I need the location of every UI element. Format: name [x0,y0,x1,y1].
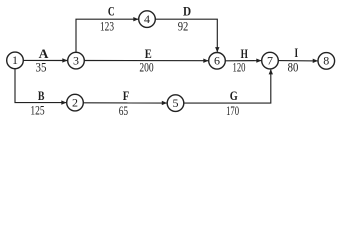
svg-text:8: 8 [323,54,329,68]
wire A: node1 to node3 [23,59,67,61]
svg-text:170: 170 [226,104,239,118]
wire C: node3 up then right to node4 [76,19,138,52]
svg-text:200: 200 [139,61,153,75]
node 3 [68,52,85,69]
svg-text:D: D [183,5,191,19]
svg-text:3: 3 [73,53,79,67]
wire I: node7 to node8 [278,60,317,62]
node 2 [67,94,84,111]
wire E: node3 to node6 [84,60,208,62]
svg-text:65: 65 [119,104,128,118]
svg-text:4: 4 [144,12,150,26]
wire D: node4 right then down to node6 [155,19,217,52]
wire F: node2 to node5 [83,102,166,104]
node 8 [318,53,335,70]
node 1 [7,52,24,69]
node 4 [139,11,156,28]
wire H: node6 to node7 [225,60,261,62]
svg-text:B: B [38,89,45,103]
svg-text:92: 92 [178,20,189,34]
wire G: node5 right then up to node7 [184,70,271,103]
svg-text:123: 123 [100,19,114,33]
svg-text:7: 7 [267,53,273,67]
node 7 [262,52,279,69]
svg-text:6: 6 [214,54,220,68]
wire B: node1 down then right to node2 [15,69,66,103]
svg-text:I: I [295,46,299,60]
svg-text:G: G [230,89,238,103]
svg-text:5: 5 [173,96,179,110]
svg-text:125: 125 [30,104,44,118]
svg-text:2: 2 [72,95,78,109]
node 6 [209,53,226,70]
svg-text:35: 35 [36,61,47,75]
svg-text:1: 1 [12,53,18,67]
svg-text:H: H [241,47,248,61]
svg-text:F: F [123,89,130,103]
svg-text:A: A [39,47,49,61]
node 5 [167,95,184,112]
svg-text:120: 120 [233,61,246,75]
svg-text:E: E [145,47,152,61]
svg-text:80: 80 [288,61,299,75]
svg-text:C: C [108,4,115,18]
